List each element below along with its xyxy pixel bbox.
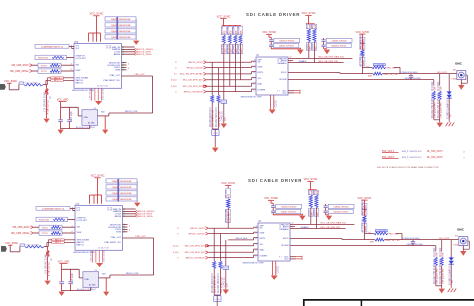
- svg-text:MCL_DB_DRV_FAULT(1): MCL_DB_DRV_FAULT(1): [321, 222, 346, 225]
- svg-text:SDI: SDI: [76, 64, 80, 66]
- U6 bottom ground pins: [272, 261, 274, 275]
- capacitor label box near Rg pair: [212, 130, 219, 136]
- wire caps to ground: [271, 48, 300, 50]
- wire row RECLK_SDVNDV3 to U6: [209, 257, 254, 259]
- svg-text:XTAL IN/EXT CLK: XTAL IN/EXT CLK: [104, 241, 121, 244]
- svg-text:R6 C04: R6 C04: [226, 189, 228, 198]
- resistor R76 label box: [38, 63, 61, 67]
- svg-text:6: 6: [129, 230, 130, 232]
- svg-text:C(E)43 5/C4-5000: C(E)43 5/C4-5000: [404, 78, 421, 80]
- svg-text:8: 8: [175, 62, 177, 64]
- svg-text:SDI_CMS_SDV3: SDI_CMS_SDV3: [11, 65, 29, 67]
- wire VCC_5VA0 feed: [9, 245, 11, 252]
- svg-text:DOWER: DOWER: [258, 89, 266, 91]
- svg-text:C5: C5: [95, 270, 97, 272]
- svg-text:DL_5V0_OUT2: DL_5V0_OUT2: [427, 157, 443, 159]
- wire C14 to pins LF1/LF2: [69, 45, 74, 47]
- ground arrow Cg: [221, 124, 227, 129]
- resistor RATIO_D label box: [51, 77, 64, 79]
- wire row RECLK_SDV3 to U6: [207, 61, 252, 63]
- svg-text:VCC_SYNC: VCC_SYNC: [304, 177, 318, 181]
- svg-text:LOCK DET: LOCK DET: [77, 220, 88, 222]
- ground arrow VCC_AVD cap: [58, 130, 64, 134]
- capacitor Cg: [223, 74, 225, 100]
- diode D TVS protection: [448, 74, 450, 92]
- svg-text:VCC_SYNC: VCC_SYNC: [217, 14, 231, 18]
- svg-text:9 1: 9 1: [279, 256, 282, 258]
- wire RATIO rows to IC: [48, 239, 51, 241]
- svg-text:MCL_DB_DRV_EN: MCL_DB_DRV_EN: [321, 227, 340, 229]
- svg-text:RECLK_SDV3: RECLK_SDV3: [188, 62, 203, 64]
- svg-text:10: 10: [292, 222, 294, 224]
- ground arrow under resistor pack: [133, 41, 139, 45]
- svg-text:8: 8: [72, 231, 73, 233]
- svg-text:5V0_OUT1: 5V0_OUT1: [437, 72, 448, 74]
- top channel: reclocker block: [0, 12, 154, 135]
- svg-text:4: 4: [129, 225, 130, 227]
- ground arrow IC bottom: [95, 101, 102, 105]
- svg-text:25 26 27 28: 25 26 27 28: [98, 248, 109, 250]
- wire SDOD output: [290, 238, 342, 240]
- resistor Rt1 return loss: [433, 80, 435, 86]
- svg-text:MCL_DB_DPH_3V1: MCL_DB_DPH_3V1: [185, 246, 206, 248]
- diode D TVS protection: [450, 240, 452, 258]
- wire R76 to pin SDI: [61, 64, 74, 66]
- svg-text:R76 D: R76 D: [41, 65, 47, 67]
- svg-text:C18 C19 D1: C18 C19 D1: [91, 250, 93, 262]
- svg-text:6,5,10: 6,5,10: [171, 80, 177, 82]
- svg-text:C(E)R9 10K/4DD3R: C(E)R9 10K/4DD3R: [111, 37, 131, 39]
- ground arrow BNC: [458, 85, 464, 90]
- resistor pull-up FAULTN: [310, 189, 312, 191]
- svg-text:MCL_DB_DPH_3V1: MCL_DB_DPH_3V1: [183, 80, 204, 82]
- svg-text:/1DV: /1DV: [225, 48, 227, 54]
- svg-text:8: 8: [256, 232, 257, 234]
- svg-text:SDI CABLE DRIVER: SDI CABLE DRIVER: [246, 12, 300, 17]
- svg-text:1DV D 4R7 1%: 1DV D 4R7 1%: [219, 111, 221, 127]
- IC right middle stub pins: [123, 224, 128, 226]
- wire XTAL_OUT from IC to crystal: [122, 75, 153, 77]
- svg-text:VCC_5VA0: VCC_5VA0: [4, 79, 17, 83]
- resistor pull-up ENABLE: [313, 23, 315, 25]
- svg-text:/1DV 4R7: /1DV 4R7: [229, 212, 231, 223]
- svg-text:TRES_TN_TTM: TRES_TN_TTM: [385, 240, 400, 242]
- svg-text:R77 D: R77 D: [42, 233, 48, 235]
- wire bias to ground: [46, 95, 48, 119]
- svg-text:4: 4: [71, 63, 72, 65]
- resistor series 75R on SDOD: [373, 72, 383, 75]
- wire vcc drop: [100, 33, 102, 42]
- svg-text:U5F: U5F: [74, 42, 79, 44]
- resistor Rg1 to ground: [213, 228, 215, 261]
- wire vcc drop: [89, 195, 91, 204]
- svg-text:D SMD CLAMP 5V: D SMD CLAMP 5V: [448, 265, 451, 285]
- svg-text:SDW: SDW: [76, 70, 81, 72]
- svg-text:ENABLE: ENABLE: [279, 62, 287, 65]
- resistor Rg1 to ground: [211, 62, 213, 95]
- resistor series 75R on SDOD: [375, 238, 385, 241]
- wire resistor pack common: [135, 19, 137, 41]
- wire ENABLE net: [290, 228, 346, 230]
- capacitor C31 label box: [276, 204, 302, 208]
- capacitor C15 crystal load: [69, 107, 71, 119]
- resistor pack row label box: [106, 191, 137, 195]
- svg-text:5: 5: [256, 244, 257, 246]
- capacitor on VCC_AVD: [61, 264, 63, 282]
- svg-text:10: 10: [174, 74, 177, 76]
- resistor R1D5 symbol: [53, 218, 65, 220]
- svg-text:C18 C19 D1: C18 C19 D1: [90, 88, 92, 100]
- resistor R77 label box: [39, 231, 62, 235]
- svg-text:29 28: 29 28: [107, 210, 113, 212]
- svg-text:C(E)31 1uF/D25: C(E)31 1uF/D25: [279, 41, 295, 43]
- IC U6 cable driver body: [256, 57, 288, 95]
- ground arrow Rt pair: [439, 289, 445, 294]
- capacitor C32 label box: [274, 43, 299, 47]
- svg-text:RATIO1: RATIO1: [76, 82, 84, 85]
- wire crystal bottom return: [90, 287, 92, 290]
- svg-text:18: 18: [253, 72, 255, 74]
- wire row RECLK_SDVNDV3 to U6: [207, 91, 252, 93]
- svg-text:COND4 5/C4-5000: COND4 5/C4-5000: [401, 72, 419, 74]
- wire SDOD to BNC: [382, 73, 456, 75]
- capacitor C15 crystal load: [70, 269, 72, 281]
- svg-text:C(E)R9 10K/4DD3R: C(E)R9 10K/4DD3R: [112, 187, 132, 189]
- wire SDOD output: [288, 72, 340, 74]
- svg-text:GND/SOUND SO CPW: GND/SOUND SO CPW: [243, 262, 264, 264]
- inductor L2 winding: [25, 246, 44, 248]
- svg-text:75R: 75R: [440, 86, 442, 91]
- svg-text:SDODM: SDODM: [279, 79, 287, 81]
- svg-text:RC04 D/1DV: RC04 D/1DV: [226, 208, 228, 222]
- svg-text:75R D1DV 4R7: 75R D1DV 4R7: [440, 101, 442, 118]
- svg-text:10K: 10K: [312, 190, 314, 194]
- resistor left bias vertical: [47, 247, 49, 251]
- chassis ground under diode: [450, 287, 452, 289]
- wire FAULTN net: [288, 57, 352, 59]
- wire to R76: [33, 64, 39, 66]
- wire VCC_AVD to crystal: [62, 268, 80, 270]
- svg-text:B20: B20: [101, 111, 104, 113]
- svg-text:SMD/DL/DD: SMD/DL/DD: [410, 151, 422, 153]
- wire terminator R63 to row: [239, 43, 241, 79]
- capacitor C31 C32 symbols: [270, 37, 272, 39]
- wire R1D5 to pin OPA/TOR: [68, 218, 76, 220]
- svg-text:75R D1DV 4R7: 75R D1DV 4R7: [442, 267, 444, 284]
- resistor R77 label box: [38, 69, 61, 73]
- svg-text:SDI: SDI: [77, 226, 81, 228]
- resistor divider chain: [362, 203, 367, 209]
- svg-text:RC0402 4R7K D1V: RC0402 4R7K D1V: [210, 107, 212, 127]
- svg-text:.: .: [2, 71, 3, 73]
- svg-text:XTAL_OUT: XTAL_OUT: [109, 74, 120, 77]
- capacitor on VCC_AVD: [60, 102, 62, 120]
- svg-text:C(E)31 1uF/D25: C(E)31 1uF/D25: [281, 207, 297, 209]
- svg-text:RDM: RDM: [115, 70, 120, 72]
- svg-text:75R: 75R: [442, 252, 444, 257]
- svg-text:4: 4: [463, 157, 465, 159]
- svg-text:8: 8: [71, 69, 72, 71]
- resistor pack row label box: [105, 29, 136, 33]
- svg-text:9: 9: [177, 257, 179, 259]
- svg-text:RECLK_BUS: RECLK_BUS: [236, 238, 249, 240]
- svg-text:75R: 75R: [437, 252, 439, 257]
- wire XTAL_OUT from IC to crystal: [123, 237, 154, 239]
- ground arrow C33 C34: [326, 216, 332, 221]
- svg-text:49R9: 49R9: [365, 225, 367, 231]
- svg-text:5V0_P: 5V0_P: [402, 151, 409, 153]
- svg-text:5: 5: [254, 78, 255, 80]
- svg-text:CAL NOTE PLACE INDUCTOR NEAR S: CAL NOTE PLACE INDUCTOR NEAR SMA CONNECT…: [377, 166, 439, 169]
- ground arrow VCC_AVD cap: [59, 292, 65, 296]
- IC right middle stub pins: [122, 62, 127, 64]
- resistor R77 symbol: [51, 232, 61, 235]
- resistor R63 series terminator: [239, 24, 241, 27]
- svg-text:D 49R9: D 49R9: [365, 206, 367, 215]
- svg-text:20: 20: [255, 255, 257, 257]
- svg-text:D SMD CLAMP 5V: D SMD CLAMP 5V: [446, 99, 449, 119]
- IC U7F reclocker body: [75, 206, 123, 251]
- svg-text:MCL_DB_DPH_3V4: MCL_DB_DPH_3V4: [185, 252, 206, 254]
- crystal X1: [82, 110, 98, 126]
- ground arrow left bias: [45, 281, 51, 285]
- svg-text:10: 10: [290, 56, 292, 58]
- capacitor C32 label box: [276, 209, 301, 213]
- resistor RATIO_1 label box: [52, 241, 65, 243]
- IC U5F reclocker body: [74, 44, 122, 89]
- svg-text:11: 11: [292, 227, 294, 229]
- svg-text:5V: 5V: [452, 280, 454, 283]
- svg-text:SDW: SDW: [260, 232, 265, 234]
- wire resistor pack common: [136, 181, 138, 203]
- svg-text:ENABLE: ENABLE: [301, 226, 310, 229]
- wire caps to ground: [273, 214, 302, 216]
- wire crystal bottom return: [89, 125, 91, 128]
- svg-text:SDI_CMS_SDV3: SDI_CMS_SDV3: [12, 227, 30, 229]
- wire SDOD to BNC: [384, 239, 458, 241]
- svg-text:TGND: TGND: [453, 244, 459, 246]
- svg-text:5,4,10: 5,4,10: [171, 86, 177, 88]
- svg-text:SDICLK_SDV3r: SDICLK_SDV3r: [138, 215, 153, 218]
- svg-text:1N5: 1N5: [455, 236, 458, 238]
- U6 ANTIN stub: [288, 60, 293, 62]
- svg-text:6,5,10: 6,5,10: [173, 246, 179, 248]
- svg-text:SDE: SDE: [368, 75, 373, 77]
- resistor Rt2: [441, 240, 443, 252]
- capacitor C14 input network label box: [35, 44, 69, 48]
- wire R76 to pin SDI: [62, 226, 75, 228]
- svg-text:4: 4: [72, 225, 73, 227]
- wire bias to ground: [47, 257, 49, 281]
- svg-text:10K: 10K: [310, 24, 312, 28]
- crystal X1: [83, 272, 99, 288]
- svg-text:8: 8: [254, 66, 255, 68]
- ground arrow Rt pair: [437, 123, 443, 128]
- capacitor C33 label box: [326, 38, 352, 42]
- wire SDODM output: [290, 245, 436, 247]
- svg-text:D10: D10: [224, 268, 227, 270]
- svg-text:C17: C17: [51, 258, 53, 261]
- svg-text:C(E)32 1uF/D25: C(E)32 1uF/D25: [281, 212, 297, 214]
- svg-text:1DV D 4R7 1%: 1DV D 4R7 1%: [221, 277, 223, 293]
- capacitor Cg: [225, 240, 227, 266]
- svg-text:RC0402 4R7K D1V: RC0402 4R7K D1V: [212, 273, 214, 293]
- wire BNC shield to ground: [460, 80, 462, 85]
- svg-text:C(E)43 5/C4-5000: C(E)43 5/C4-5000: [406, 244, 423, 246]
- svg-text:RSTN: RSTN: [258, 72, 264, 74]
- wire RATIO rows to IC: [47, 77, 50, 79]
- resistor R76 symbol: [51, 226, 61, 229]
- svg-text:C(E)33 1uF/D25: C(E)33 1uF/D25: [334, 207, 350, 209]
- svg-text:1DV D 4R7K 1%: 1DV D 4R7K 1%: [215, 276, 217, 293]
- svg-text:R77 D: R77 D: [41, 71, 47, 73]
- svg-text:RECLK_SDVNDV3: RECLK_SDVNDV3: [184, 91, 204, 93]
- svg-text:SDI_CMS_SDV3e: SDI_CMS_SDV3e: [11, 233, 30, 235]
- ground arrow U6: [271, 276, 278, 280]
- svg-text:SDICLK_SDV3r: SDICLK_SDV3r: [137, 53, 152, 56]
- svg-text:C(E)R9 10K/4DD3R: C(E)R9 10K/4DD3R: [111, 19, 131, 21]
- svg-text:1DV: 1DV: [226, 283, 228, 288]
- wire R77 to pin SDW: [61, 70, 74, 72]
- capacitor C33 C34 symbols: [323, 38, 325, 40]
- svg-text:18: 18: [255, 238, 257, 240]
- svg-text:SDOD: SDOD: [281, 72, 287, 74]
- wire VCC to terminators: [223, 19, 225, 26]
- svg-text:C D1: C D1: [215, 299, 219, 301]
- svg-text:C0402 D1: C0402 D1: [222, 110, 224, 121]
- sheet connector tab at left edge: [0, 84, 6, 90]
- svg-text:C(E)R9 10K/4DD3R: C(E)R9 10K/4DD3R: [111, 31, 131, 33]
- capacitor C33 label box: [328, 204, 354, 208]
- resistor pack row label box: [106, 197, 137, 201]
- svg-text:C15 22pF: C15 22pF: [72, 272, 74, 283]
- ground arrow IC bottom: [96, 263, 103, 267]
- wire R77 to pin SDW: [62, 232, 75, 234]
- svg-text:RECLK_SDVNDV3: RECLK_SDVNDV3: [186, 257, 206, 259]
- svg-text:B20: B20: [102, 273, 105, 275]
- wire row MCL_DB_DPH_3V1 to U6: [207, 79, 252, 81]
- svg-text:D 49R9: D 49R9: [363, 40, 365, 49]
- ground arrow caps: [297, 50, 303, 55]
- svg-text:SDW: SDW: [258, 66, 263, 68]
- sheet connector tab at left edge: [1, 246, 7, 252]
- svg-text:C14(E)E8A4733(4TH_D): C14(E)E8A4733(4TH_D): [42, 207, 65, 210]
- svg-text:SPVLIT/DBM: SPVLIT/DBM: [76, 77, 89, 79]
- svg-text:VCC_SYNC: VCC_SYNC: [357, 196, 371, 200]
- U6 bottom ground pins: [270, 95, 272, 109]
- svg-text:DOWER: DOWER: [260, 255, 268, 257]
- ground arrow U6: [269, 110, 276, 114]
- resistor pull-up ENABLE: [315, 189, 317, 191]
- svg-text:SDODM: SDODM: [281, 245, 289, 247]
- wires IC right outputs: [123, 208, 136, 210]
- wire join Rg1 Rg2: [212, 128, 218, 130]
- wire VCC_AVD to crystal: [61, 106, 79, 108]
- resistor R76 label box: [39, 225, 62, 229]
- svg-text:R1D5 47K: R1D5 47K: [38, 58, 49, 60]
- svg-text:VCC_AVD: VCC_AVD: [58, 260, 70, 263]
- svg-text:R1D5 47K: R1D5 47K: [39, 220, 50, 222]
- svg-text:6: 6: [177, 233, 179, 235]
- svg-text:9: 9: [175, 91, 177, 93]
- svg-text:VCC_SYNC: VCC_SYNC: [355, 30, 369, 34]
- svg-text:RECLK_SDV3U: RECLK_SDV3U: [189, 233, 205, 235]
- capacitor C34 label box: [328, 209, 353, 213]
- svg-text:LOCK DET: LOCK DET: [76, 58, 87, 60]
- net labels SDICLK outputs: [135, 49, 137, 51]
- ground arrow under resistor pack: [134, 203, 140, 207]
- capacitor C14 input network label box: [36, 206, 70, 210]
- wire to bias junction: [44, 246, 48, 248]
- svg-text:R76 D: R76 D: [42, 227, 48, 229]
- resistor RATIO_1 label box: [51, 79, 64, 81]
- svg-text:4: 4: [463, 151, 465, 153]
- wire terminator R60 to row: [223, 43, 225, 74]
- wire to R77: [33, 70, 39, 72]
- bottom channel: reclocker block: [1, 174, 155, 297]
- resistor R60 series terminator: [223, 24, 225, 27]
- resistor R1D5 label box: [36, 217, 68, 221]
- IC U6 cable driver body: [258, 223, 290, 261]
- svg-text:75R: 75R: [435, 86, 437, 91]
- wire terminator R62 to row: [234, 43, 236, 91]
- svg-text:DL_5V0_OUT1: DL_5V0_OUT1: [427, 151, 443, 153]
- wire bottom terminator to row1: [227, 208, 229, 228]
- svg-text:C20 C21 D1: C20 C21 D1: [104, 250, 106, 262]
- svg-text:C22 D1: C22 D1: [278, 265, 280, 274]
- svg-text:RSTN: RSTN: [260, 238, 266, 240]
- wire vcc drop: [96, 33, 98, 42]
- svg-text:VCC_SYND: VCC_SYND: [264, 197, 278, 200]
- wire ENABLE net: [288, 62, 344, 64]
- svg-text:5V0_OUT2: 5V0_OUT2: [439, 238, 450, 240]
- svg-text:6: 6: [175, 67, 177, 69]
- wire crystal right pin: [99, 277, 110, 279]
- svg-text:C(E)R9 10K/4DD3R: C(E)R9 10K/4DD3R: [112, 199, 132, 201]
- svg-text:ENABLE: ENABLE: [299, 60, 308, 63]
- svg-text:TRES_TN_TTM: TRES_TN_TTM: [383, 74, 398, 76]
- ground arrow left bias: [44, 119, 50, 123]
- wire vcc drop: [93, 195, 95, 204]
- svg-text:.: .: [3, 233, 4, 235]
- svg-text:21: 21: [253, 61, 255, 63]
- svg-text:4.7uF/10V D1: 4.7uF/10V D1: [48, 99, 50, 114]
- U6 NC pin marks: [290, 256, 296, 258]
- IC bottom decoupling pins: [91, 88, 93, 100]
- svg-text:U7F: U7F: [75, 204, 80, 206]
- wires IC right outputs: [122, 46, 135, 48]
- svg-text:5V: 5V: [450, 114, 452, 117]
- resistor Rg2 to ground: [217, 68, 219, 95]
- svg-text:11: 11: [290, 61, 292, 63]
- svg-text:4.7uF/10V D1: 4.7uF/10V D1: [49, 261, 51, 276]
- svg-text:5V0_P: 5V0_P: [402, 157, 409, 159]
- wire to R77: [34, 232, 40, 234]
- svg-text:SPVLIT/DBM: SPVLIT/DBM: [77, 239, 90, 241]
- svg-text:C(E)34 1uF/D25: C(E)34 1uF/D25: [331, 46, 347, 48]
- svg-text:RECLK_SDV3: RECLK_SDV3: [190, 228, 205, 230]
- svg-text:SDE: SDE: [370, 241, 375, 243]
- svg-text:RECLK_CON: RECLK_CON: [126, 273, 139, 275]
- svg-text:8: 8: [177, 228, 179, 230]
- svg-text:75R D1DV 4R7: 75R D1DV 4R7: [435, 101, 437, 118]
- resistor R77 symbol: [50, 70, 60, 73]
- svg-text:VCC_SYNC: VCC_SYNC: [90, 12, 104, 16]
- svg-text:4: 4: [128, 63, 129, 65]
- svg-text:MCL_DB_DPH_BSTA7: MCL_DB_DPH_BSTA7: [180, 73, 203, 76]
- bottom channel: cable driver block: [173, 177, 469, 306]
- svg-text:75R D1DV 4R7: 75R D1DV 4R7: [437, 267, 439, 284]
